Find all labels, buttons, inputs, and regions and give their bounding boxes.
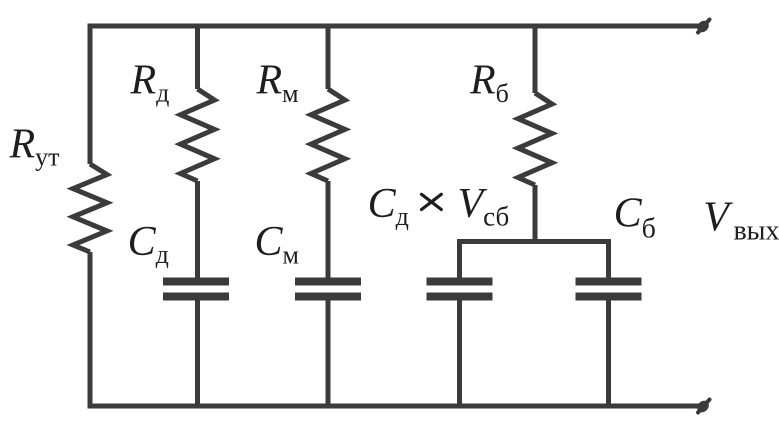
wire bottom bus [88,404,701,409]
wire branch2 lower lead [195,300,200,409]
capacitor Cb plates [576,278,642,301]
wire branch4 upper lead [533,24,538,94]
wire branch3 middle lead [326,181,331,278]
svg-text:Cд: Cд [368,181,409,231]
wire sub-branch left lower lead [457,300,462,409]
wire branch2 middle lead [195,181,200,278]
svg-text:Rб: Rб [469,58,509,109]
label Cd x Vsb [368,181,510,232]
svg-text:Rд: Rд [130,58,170,108]
wire left branch lower lead [88,252,93,409]
wire branch4 lead to splitter [533,185,538,242]
resistor Rb zigzag [518,93,552,185]
wire top bus [88,24,701,29]
svg-text:Vсб: Vсб [458,181,510,232]
wire left branch upper lead [88,24,93,165]
capacitor CdVsb plates [427,278,493,301]
resistor Rm zigzag [311,89,345,181]
terminal top right [695,18,711,34]
wire branch3 upper lead [326,24,331,90]
wire branch2 upper lead [195,24,200,90]
svg-text:Rм: Rм [256,58,299,109]
capacitor Cd plates [163,278,229,301]
terminal bottom right [695,398,711,414]
resistor Rd zigzag [181,89,215,181]
svg-text:Cб: Cб [614,191,656,245]
resistor Rut zigzag [73,164,107,252]
svg-text:Vвых: Vвых [703,195,779,247]
wire branch3 lower lead [326,300,331,409]
wire splitter bar with stubs [460,242,609,279]
svg-text:Cд: Cд [128,219,169,269]
svg-text:Rут: Rут [9,122,60,172]
capacitor Cm plates [295,278,361,301]
wire sub-branch right lower lead [606,300,611,409]
svg-text:Cм: Cм [255,219,299,270]
